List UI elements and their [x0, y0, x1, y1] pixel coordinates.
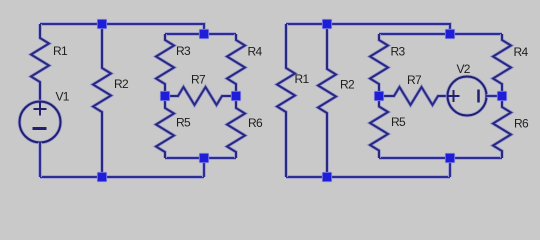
node junction (204,158) left circuit	[199, 153, 209, 163]
svg-text:R2: R2	[114, 77, 129, 91]
svg-text:R6: R6	[514, 117, 529, 131]
svg-text:R1: R1	[295, 72, 310, 86]
resistor R2 (left circuit)	[93, 24, 129, 177]
node junction (450,34) right circuit	[445, 29, 455, 39]
svg-text:R1: R1	[53, 44, 68, 58]
wire bridge top rail left circuit	[165, 32, 236, 36]
node junction (204,34) left circuit	[199, 29, 209, 39]
wire bridge-to-bottom stub left circuit	[202, 158, 206, 177]
svg-text:R7: R7	[407, 73, 422, 87]
wire top rail right circuit	[286, 24, 450, 34]
node junction (502,96) right circuit	[497, 91, 507, 101]
resistor R5 (left circuit)	[156, 96, 191, 158]
svg-text:V2: V2	[457, 62, 471, 76]
resistor R5 (right circuit)	[370, 96, 406, 158]
resistor R6 (left circuit)	[227, 96, 263, 158]
node junction (450,158) right circuit	[445, 153, 455, 163]
node junction (327,177) right circuit	[322, 172, 332, 182]
svg-text:R2: R2	[340, 78, 355, 92]
node junction (327,24) right circuit	[322, 19, 332, 29]
voltage source V2	[448, 62, 503, 116]
resistor R4 (left circuit)	[227, 34, 262, 96]
wire top rail left circuit	[40, 24, 204, 34]
wire bridge top rail right circuit	[379, 32, 502, 36]
svg-text:R3: R3	[176, 44, 191, 58]
svg-text:R4: R4	[514, 45, 529, 59]
wire bridge bottom rail right circuit	[379, 156, 502, 160]
resistor R1 (right circuit)	[277, 24, 309, 177]
svg-text:R5: R5	[391, 115, 406, 129]
svg-text:R7: R7	[191, 73, 206, 87]
resistor R7 (right circuit)	[379, 73, 448, 105]
resistor R1 (left circuit)	[31, 24, 68, 102]
wire bridge bottom rail left circuit	[165, 156, 236, 160]
node junction (379,96) right circuit	[374, 91, 384, 101]
node junction (236,96) left circuit	[231, 91, 241, 101]
resistor R3 (right circuit)	[370, 34, 405, 96]
wire bridge-to-bottom stub right circuit	[448, 158, 452, 177]
wire bottom rail left circuit	[40, 175, 204, 179]
svg-text:V1: V1	[56, 90, 70, 104]
voltage source V1	[20, 90, 70, 178]
resistor R2 (right circuit)	[318, 24, 355, 177]
resistor R3 (left circuit)	[156, 34, 191, 96]
resistor R7 (left circuit)	[165, 73, 236, 106]
resistor R4 (right circuit)	[493, 34, 528, 96]
svg-text:R5: R5	[176, 116, 191, 130]
node junction (102,24) left circuit	[97, 19, 107, 29]
node junction (102,177) left circuit	[97, 172, 107, 182]
wire bottom rail right circuit	[286, 175, 450, 179]
svg-text:R3: R3	[391, 45, 406, 59]
svg-text:R4: R4	[248, 45, 263, 59]
resistor R6 (right circuit)	[493, 96, 529, 158]
svg-text:R6: R6	[248, 116, 263, 130]
node junction (165,96) left circuit	[160, 91, 170, 101]
